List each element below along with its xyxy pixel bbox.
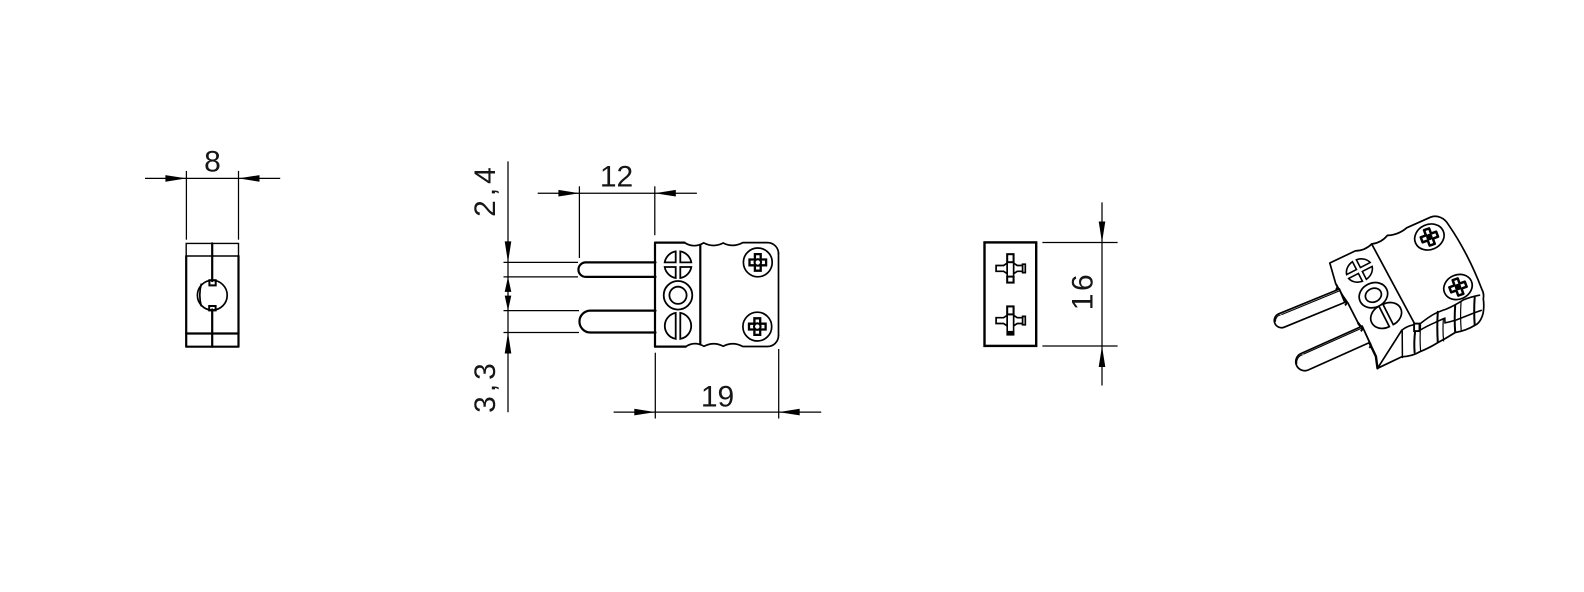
isometric band ridges (1413, 331, 1416, 352)
isometric body silhouette fill (1330, 216, 1484, 368)
isometric lower screw (1440, 270, 1477, 304)
isometric ring symbol (1355, 278, 1392, 312)
side view hole circle (197, 280, 227, 310)
dimension 16 line (1101, 202, 1103, 385)
side view center line upper (211, 243, 213, 281)
side view bottom cap line (186, 332, 238, 334)
front view body wavy bottom edge (686, 336, 779, 347)
isometric quartered circle symbol (1343, 255, 1377, 287)
isometric front face divider (1372, 244, 1415, 323)
isometric bottom front edge (1378, 330, 1402, 368)
front view lower screw (743, 312, 772, 341)
svg-text:2,4: 2,4 (469, 163, 502, 217)
svg-text:12: 12 (600, 161, 633, 194)
isometric band top edge (1402, 325, 1414, 331)
dimension 19 line (614, 411, 822, 413)
front view body left edge (655, 243, 685, 347)
front view body wavy top edge (685, 243, 779, 254)
dimension 19 extension lines (654, 353, 656, 419)
dimension arrows on vertical line (505, 241, 512, 262)
front view body right edge (778, 254, 780, 336)
svg-text:3,3: 3,3 (469, 359, 502, 413)
svg-text:19: 19 (701, 381, 734, 414)
dimension 2,4 and 3,3 vertical line (507, 161, 509, 412)
section view body rectangle (985, 242, 1037, 346)
dimension 16 extension lines (1042, 242, 1117, 244)
front view upper pin (578, 262, 655, 277)
dimension 12 extension lines (578, 186, 580, 258)
side view top notch (209, 280, 215, 285)
side view top cap line (186, 255, 238, 257)
section view lower pin cross-section (996, 315, 1007, 326)
dimension 12 line (538, 192, 697, 194)
side view left arc flat (200, 284, 201, 306)
isometric lower pin (1296, 326, 1370, 371)
front view lower pin (579, 311, 655, 333)
front view quartered circle symbol (680, 251, 691, 262)
isometric band left ridge (1401, 331, 1403, 358)
dimension 8 extension lines (185, 171, 187, 240)
front view upper screw (743, 248, 772, 277)
pin edge tick lines (504, 261, 579, 263)
isometric band tier line (1419, 310, 1482, 331)
side view center line lower (211, 310, 213, 347)
front view divider line (699, 245, 701, 344)
front view half-moon symbol (665, 313, 676, 339)
dimension 8 line (145, 177, 280, 179)
isometric body lower-left bold edge (1358, 323, 1377, 368)
isometric band notch square (1414, 324, 1419, 332)
svg-text:8: 8 (204, 146, 221, 179)
section view upper pin cross-section (996, 263, 1007, 274)
isometric pin exit marks (1336, 284, 1338, 290)
isometric half-moon symbol (1367, 298, 1406, 333)
dimension 8 arrows (165, 175, 186, 182)
side view body outline (186, 256, 238, 347)
svg-text:16: 16 (1067, 272, 1100, 310)
front view ring symbol (664, 281, 693, 310)
side view top cap outline (186, 243, 238, 256)
side view bottom notch (209, 306, 215, 310)
isometric upper screw (1410, 219, 1448, 254)
isometric upper pin (1274, 289, 1345, 328)
